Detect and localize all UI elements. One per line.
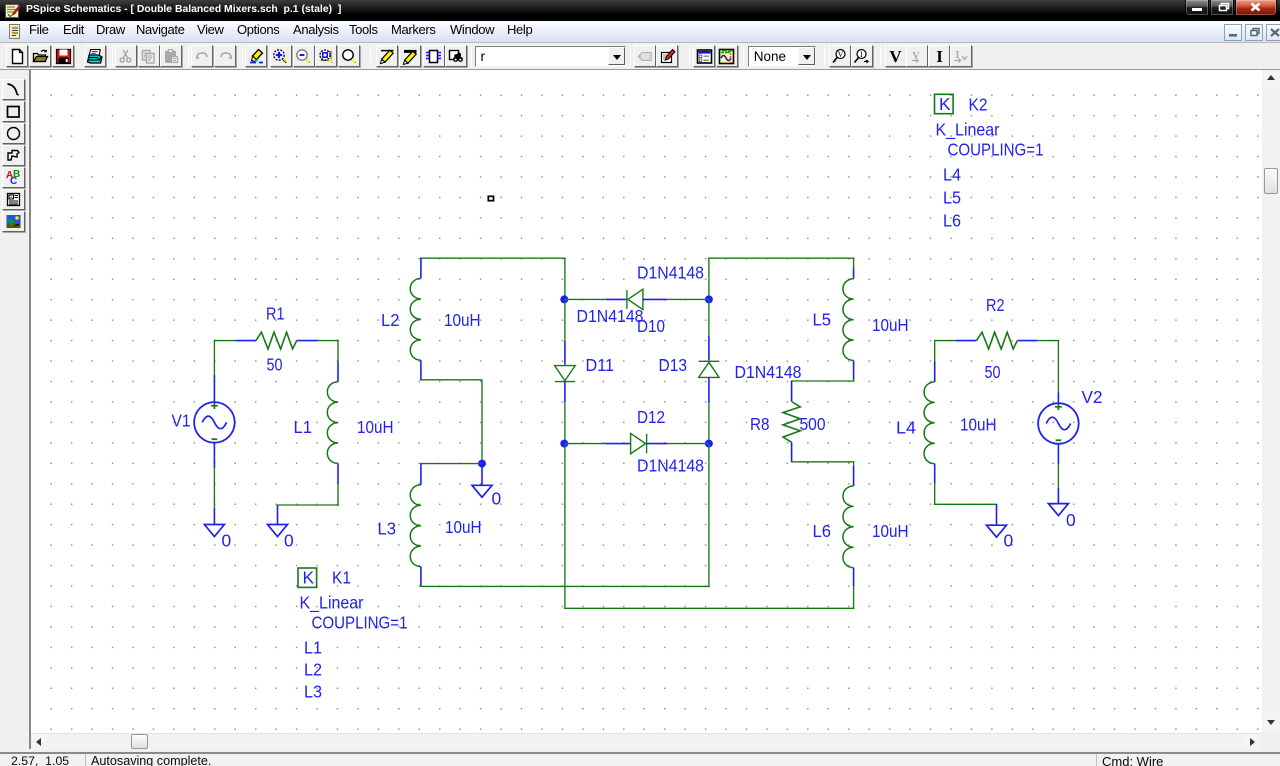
inductor L6 top pin bbox=[853, 466, 855, 486]
svg-text:L4: L4 bbox=[943, 165, 961, 185]
inductor L3 coil bbox=[410, 485, 421, 567]
inductor L6 bottom pin bbox=[853, 568, 855, 587]
svg-text:10uH: 10uH bbox=[444, 310, 481, 330]
toolbar draw block bbox=[423, 45, 445, 67]
palette draw arc bbox=[2, 79, 25, 100]
resistor R2 row bbox=[935, 340, 956, 342]
toolbar bbox=[0, 44, 1280, 70]
op V2 AC source bbox=[1038, 403, 1079, 444]
inductor L4 bottom pin bbox=[934, 464, 936, 484]
ground 0 under V1 bbox=[204, 525, 224, 537]
ground under L4 bbox=[996, 504, 998, 525]
resistor R1 right pin bbox=[297, 340, 318, 342]
toolbar show selected I (disabled) bbox=[950, 45, 972, 67]
svg-text:L6: L6 bbox=[813, 521, 832, 541]
toolbar zoom in bbox=[270, 45, 292, 67]
svg-text:L6: L6 bbox=[943, 211, 961, 231]
svg-text:L2: L2 bbox=[304, 660, 322, 680]
svg-text:10uH: 10uH bbox=[872, 315, 909, 335]
toolbar setup analysis bbox=[693, 45, 715, 67]
ground 0 under L1 bbox=[268, 525, 288, 537]
wire L2 bottom to center tap junction bbox=[420, 379, 422, 381]
resistor R8 top pin bbox=[791, 381, 793, 402]
svg-text:D12: D12 bbox=[637, 407, 665, 427]
palette draw polyline bbox=[2, 145, 25, 166]
svg-text:L1: L1 bbox=[304, 638, 322, 658]
cursor box marker bbox=[488, 196, 493, 200]
svg-text:L3: L3 bbox=[304, 682, 322, 702]
horizontal scrollbar bbox=[31, 733, 1261, 749]
svg-text:L5: L5 bbox=[813, 310, 832, 330]
toolbar simulate bbox=[716, 45, 738, 67]
inductor L3 bottom pin bbox=[420, 567, 422, 587]
toolbar show bias I bbox=[928, 45, 950, 67]
junction D12 left bbox=[560, 440, 568, 448]
op V1 AC source bbox=[194, 402, 235, 443]
toolbar get new part bbox=[445, 45, 467, 67]
diode D12 body bbox=[631, 433, 646, 453]
toolbar show selected V (disabled) bbox=[906, 45, 928, 67]
svg-text:R2: R2 bbox=[986, 295, 1005, 315]
wire D12 left col down bbox=[564, 444, 566, 609]
diode D13 body bbox=[699, 360, 720, 362]
junction center tap bbox=[478, 460, 486, 468]
K symbol box K1 bbox=[298, 568, 317, 587]
resistor R1 body bbox=[256, 332, 297, 349]
inductor L5 coil bbox=[843, 279, 854, 361]
toolbar edit attributes bbox=[656, 45, 678, 67]
caption buttons bbox=[1185, 0, 1209, 16]
svg-text:A: A bbox=[10, 195, 13, 200]
diode D12 pins bbox=[565, 443, 605, 445]
toolbar undo (disabled) bbox=[191, 45, 213, 67]
svg-text:V: V bbox=[838, 50, 844, 59]
vertical scrollbar bbox=[1263, 70, 1280, 732]
toolbar draw wire bbox=[245, 45, 267, 67]
wire D12 right col down bbox=[708, 444, 710, 588]
wire L3 bottom rail bbox=[420, 585, 710, 587]
toolbar open file bbox=[29, 45, 51, 67]
toolbar voltage marker bbox=[829, 45, 851, 67]
svg-text:L5: L5 bbox=[943, 188, 961, 208]
svg-text:D1N4148: D1N4148 bbox=[735, 362, 802, 382]
svg-text:10uH: 10uH bbox=[357, 417, 394, 437]
palette insert picture bbox=[2, 211, 25, 232]
svg-text:L1: L1 bbox=[294, 417, 313, 437]
wire R8 bottom corner bbox=[791, 461, 855, 463]
toolbar save bbox=[52, 45, 74, 67]
svg-text:D1N4148: D1N4148 bbox=[577, 306, 644, 326]
inductor L2 top pin bbox=[420, 257, 422, 278]
inductor L1 bottom pin bbox=[337, 464, 339, 484]
inductor L5 bottom pin bbox=[853, 361, 855, 380]
resistor R2 body bbox=[977, 332, 1018, 349]
diode D13 bottom pin bbox=[708, 377, 710, 402]
toolbar show bias V bbox=[885, 45, 907, 67]
svg-text:50: 50 bbox=[985, 362, 1001, 382]
toolbar marker combobox None bbox=[748, 46, 816, 67]
V2 column bbox=[1057, 340, 1059, 393]
left palette bbox=[0, 70, 30, 749]
diode D10 body bbox=[626, 290, 628, 309]
inductor L5 top pin bbox=[853, 258, 855, 268]
wire junction to L3 top bbox=[420, 463, 483, 465]
toolbar draw bus pencil bbox=[399, 45, 421, 67]
svg-text:K_Linear: K_Linear bbox=[300, 593, 364, 613]
svg-text:K: K bbox=[303, 568, 315, 588]
toolbar paste (disabled) bbox=[160, 45, 182, 67]
wire L2 top rail bbox=[421, 257, 566, 259]
svg-text:R1: R1 bbox=[266, 304, 285, 324]
toolbar current marker bbox=[851, 45, 873, 67]
status bar bbox=[0, 752, 1280, 754]
junction D10 right bbox=[705, 295, 713, 303]
palette place text bbox=[2, 167, 25, 188]
K symbol box K2 bbox=[935, 94, 954, 113]
svg-text:K_Linear: K_Linear bbox=[936, 120, 1000, 140]
svg-text:K1: K1 bbox=[332, 568, 351, 588]
svg-text:D10: D10 bbox=[637, 316, 665, 336]
svg-text:C: C bbox=[10, 176, 17, 186]
inductor L4 coil bbox=[924, 382, 935, 464]
svg-text:D1N4148: D1N4148 bbox=[637, 263, 704, 283]
toolbar print bbox=[84, 45, 106, 67]
diode D11 body bbox=[555, 366, 576, 381]
resistor R1 left pin bbox=[236, 340, 256, 342]
svg-text:L2: L2 bbox=[381, 310, 400, 330]
toolbar zoom area bbox=[315, 45, 337, 67]
toolbar new file bbox=[6, 45, 28, 67]
svg-text:0: 0 bbox=[1004, 531, 1014, 551]
svg-text:10uH: 10uH bbox=[960, 415, 997, 435]
svg-text:D11: D11 bbox=[586, 355, 615, 375]
svg-text:50: 50 bbox=[267, 355, 283, 375]
wire L4 bottom bbox=[934, 483, 936, 505]
svg-text:L4: L4 bbox=[896, 418, 916, 438]
wire R1 to L1 bbox=[317, 340, 339, 342]
svg-text:COUPLING=1: COUPLING=1 bbox=[312, 613, 408, 633]
inductor L6 coil bbox=[843, 486, 854, 568]
resistor R8 body bbox=[783, 402, 800, 443]
toolbar draw wire pencil bbox=[376, 45, 398, 67]
svg-text:V: V bbox=[889, 48, 902, 65]
wire top rail right bbox=[708, 257, 854, 259]
svg-text:COUPLING=1: COUPLING=1 bbox=[948, 140, 1044, 160]
diode D10 pins bbox=[565, 298, 606, 300]
V1 bottom pin bbox=[213, 443, 215, 468]
toolbar zoom page bbox=[338, 45, 360, 67]
svg-text:D13: D13 bbox=[659, 355, 688, 375]
svg-text:0: 0 bbox=[222, 531, 232, 551]
svg-text:10uH: 10uH bbox=[445, 517, 482, 537]
svg-text:K: K bbox=[939, 94, 951, 114]
menu bar bbox=[0, 21, 1280, 43]
toolbar edit symbol (disabled) bbox=[634, 45, 656, 67]
svg-text:I: I bbox=[936, 48, 943, 65]
title bar bbox=[0, 0, 1280, 21]
toolbar redo (disabled) bbox=[214, 45, 236, 67]
ground 0 center tap bbox=[472, 485, 492, 497]
voltage source V1 top pin bbox=[213, 375, 215, 402]
resistor R8 bottom pin bbox=[791, 442, 793, 462]
palette draw circle bbox=[2, 123, 25, 144]
svg-text:D1N4148: D1N4148 bbox=[637, 456, 704, 476]
junction D12 right bbox=[705, 440, 713, 448]
wire V1 top to R1 bbox=[214, 340, 236, 342]
toolbar copy (disabled) bbox=[138, 45, 160, 67]
svg-text:I: I bbox=[860, 50, 863, 59]
svg-text:10uH: 10uH bbox=[872, 521, 909, 541]
ground triangle L4 bbox=[987, 525, 1007, 537]
svg-text:0: 0 bbox=[284, 531, 294, 551]
inductor L3 top pin bbox=[420, 464, 422, 485]
palette draw box bbox=[2, 101, 25, 122]
svg-text:0: 0 bbox=[1066, 510, 1076, 530]
svg-text:K2: K2 bbox=[969, 95, 988, 115]
svg-text:R8: R8 bbox=[750, 414, 770, 434]
toolbar cut (disabled) bbox=[115, 45, 137, 67]
ground triangle V2 bbox=[1048, 504, 1068, 516]
wire L1 bottom to gnd bbox=[337, 483, 339, 506]
inductor L2 coil bbox=[410, 278, 421, 360]
toolbar part name combobox bbox=[475, 46, 626, 67]
inductor L1 top pin bbox=[337, 362, 339, 382]
inductor L2 bottom pin bbox=[420, 360, 422, 380]
app icon bbox=[5, 3, 21, 19]
wire L6 bottom bbox=[853, 586, 855, 609]
toolbar zoom out bbox=[293, 45, 315, 67]
palette text box bbox=[2, 189, 25, 210]
svg-text:V2: V2 bbox=[1082, 387, 1103, 407]
svg-text:0: 0 bbox=[492, 489, 502, 509]
inductor L4 column bbox=[934, 340, 936, 362]
svg-text:V1: V1 bbox=[172, 411, 191, 431]
svg-text:L3: L3 bbox=[378, 519, 397, 539]
diode D11 top pin bbox=[564, 299, 566, 341]
diode D13 top pin bbox=[708, 299, 710, 336]
diode D11 bottom pin bbox=[564, 382, 566, 403]
inductor L1 coil bbox=[327, 382, 338, 464]
junction D10 left bbox=[560, 295, 568, 303]
wire D13 col top bbox=[708, 257, 710, 299]
wire L5 bottom corner bbox=[853, 379, 855, 382]
svg-text:500: 500 bbox=[800, 414, 826, 434]
wire top rail to D10 row bbox=[564, 257, 566, 299]
ground at center tap bbox=[481, 464, 483, 486]
V2 bottom pin bbox=[1057, 444, 1059, 464]
